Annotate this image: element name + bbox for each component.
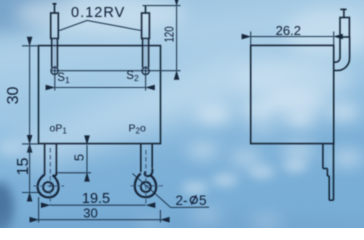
right ring curl <box>145 169 153 177</box>
side bottom leg outer <box>323 144 334 201</box>
bright diagonal streak <box>10 55 330 168</box>
side pin body <box>340 18 349 38</box>
dimension 120 line <box>176 6 178 70</box>
pin S2 lower shaft <box>143 39 149 68</box>
left mid soft puff <box>0 140 23 156</box>
svg-text:30: 30 <box>5 87 22 105</box>
pin S2 body <box>142 13 150 39</box>
dim 15 shared extension <box>22 143 39 145</box>
dim 30 left line <box>29 46 31 143</box>
side pin top wire <box>340 9 346 18</box>
pin S2 terminal circle <box>142 67 149 74</box>
2-phi5 underline <box>171 206 210 208</box>
dim 30 bottom left extension <box>38 197 40 223</box>
leader from 0.12RV to pins <box>58 21 141 32</box>
side bottom leg step <box>323 169 329 177</box>
dim 26.2 left extension <box>250 32 252 46</box>
left ring terminal loop <box>38 175 59 198</box>
svg-text:30: 30 <box>83 206 97 221</box>
dim 30 left top extension <box>22 45 39 47</box>
dim 30 bottom right extension <box>159 210 161 223</box>
dimension 120 top extension <box>143 5 181 7</box>
dim 15 line <box>29 145 31 192</box>
dim 5 line <box>86 145 88 172</box>
terminal centerline through S1 S2 <box>51 70 181 72</box>
S1 extension to dim <box>54 66 56 91</box>
right mid bright patch <box>237 60 353 100</box>
left ring curl <box>53 172 57 176</box>
side pin J hook outer <box>333 37 349 71</box>
left ring centerlines <box>34 148 65 206</box>
right top bright patch <box>286 10 364 58</box>
label 2-phi5 <box>176 193 207 208</box>
dim 26.2 line <box>251 36 333 38</box>
side bottom rod <box>329 176 333 200</box>
svg-text:2-: 2- <box>176 193 188 208</box>
dim 5 bottom extension <box>58 172 91 174</box>
side pin J hook inner <box>333 37 340 62</box>
svg-text:0.12RV: 0.12RV <box>71 5 125 21</box>
pin S1 terminal circle <box>51 67 58 74</box>
dark top-left corner band <box>0 0 75 32</box>
svg-text:15: 15 <box>15 158 32 176</box>
bottom-left dark corner patch <box>0 182 14 234</box>
left ring hole <box>43 182 53 192</box>
S2 extension to dim <box>145 66 147 91</box>
bottom darker wash <box>0 213 364 240</box>
right leg <box>141 144 152 172</box>
right ring centerlines <box>131 150 164 206</box>
pin S1 top wire <box>53 4 57 14</box>
dim 15 bottom extension <box>22 192 41 194</box>
svg-text:5: 5 <box>71 154 86 161</box>
side rect interior cloud <box>264 91 328 113</box>
pin S1 body <box>51 13 59 39</box>
S1-S2 dimension line <box>55 87 145 89</box>
dim 26.2 right extension <box>333 32 335 46</box>
right ring terminal loop <box>135 174 156 198</box>
pin S1 lower shaft <box>52 39 58 68</box>
left leg <box>45 144 57 175</box>
svg-text:5: 5 <box>199 193 207 208</box>
svg-text:26.2: 26.2 <box>276 23 301 38</box>
top light band <box>15 0 185 34</box>
pin S2 top wire <box>145 6 147 13</box>
dim 30 bottom line <box>39 219 160 221</box>
svg-text:120: 120 <box>162 26 176 42</box>
cloud puffs row3 diagonal chain <box>182 160 307 194</box>
right ring hole <box>141 182 151 192</box>
cloud puffs bottom <box>137 210 282 232</box>
side body outline <box>251 45 334 143</box>
leader line for 2-phi5 through ring <box>133 174 171 208</box>
cloud puffs row1 <box>196 102 359 127</box>
cloud puffs row2 <box>187 144 363 166</box>
dim 19.5 line <box>51 204 146 206</box>
body outline <box>39 46 161 144</box>
